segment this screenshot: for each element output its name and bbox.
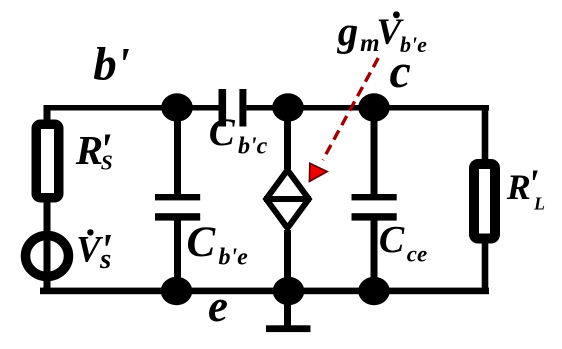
node bottom right junction [358,277,390,305]
svg-text:C: C [209,111,236,154]
capacitor C_b'e bottom plate [155,213,200,220]
capacitor C_b'c right plate [239,89,246,127]
wire left vertical upper (top rail to R'S) [44,105,51,122]
red pointer arrowhead [309,163,327,181]
wire dependent-source branch upper [284,107,291,169]
node bottom middle junction [273,277,305,305]
svg-text:C: C [187,219,217,266]
capacitor C_b'e top plate [155,194,200,200]
wire right vertical lower (R'L to bottom rail) [482,242,489,293]
wire dependent-source branch lower + ground stub [284,230,291,327]
node top middle junction [272,93,304,121]
wire C_b'e branch upper [174,107,181,195]
capacitor C_b'c left plate [219,89,227,127]
dependent source diamond mid line [264,196,311,202]
resistor R'S body [36,124,59,198]
svg-text:b'e: b'e [400,32,427,57]
wire top right segment (C_b'c right plate to collector corner) [246,105,489,111]
wire C_ce branch lower [371,220,378,291]
svg-text:b'e: b'e [219,245,249,271]
capacitor C_ce top plate [352,194,397,200]
wire C_b'e branch lower [174,220,181,291]
ground bar [266,325,311,332]
red dashed pointer line [323,58,379,160]
svg-text:C: C [379,219,405,261]
wire right vertical upper (top rail to R'L) [482,105,489,161]
wire top left segment (b' rail to C_b'c left plate) [44,105,219,111]
svg-text:ce: ce [407,242,427,267]
capacitor C_ce bottom plate [352,213,397,220]
node e left (bottom junction) [161,277,193,305]
label V'S : dot [87,229,93,235]
svg-text:L: L [533,194,545,214]
svg-text:b': b' [93,38,130,90]
svg-text:s: s [99,243,111,275]
node b' (top left junction) [161,93,193,121]
resistor R'L body [474,164,495,239]
svg-text:e: e [208,281,228,331]
label gm V b'e : dot over V [393,11,400,18]
node c (top right junction) [358,93,390,121]
source V'S circle [26,236,69,277]
wire left vertical lower (R'S through V'S source to bottom rail) [44,200,51,292]
svg-text:S: S [101,150,113,174]
svg-text:g: g [337,8,359,54]
wire bottom rail (e) [40,288,489,295]
wire C_ce branch upper [371,107,378,195]
svg-text:b'c: b'c [238,134,268,160]
dependent source diamond [266,170,309,228]
